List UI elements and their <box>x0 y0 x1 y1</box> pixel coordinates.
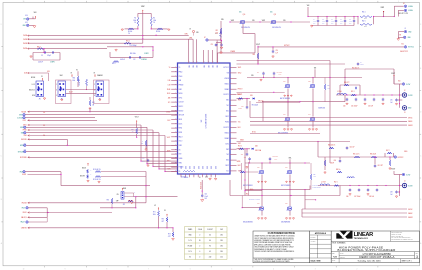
svg-text:R52 2: R52 2 <box>112 63 116 65</box>
svg-text:SUD50P06-25L: SUD50P06-25L <box>241 27 250 29</box>
svg-text:8: 8 <box>106 1 107 3</box>
svg-text:1: 1 <box>398 1 399 3</box>
svg-text:CHN: CHN <box>184 34 187 36</box>
svg-text:BUT2: BUT2 <box>225 143 229 145</box>
svg-text:V5: V5 <box>94 72 96 74</box>
svg-text:PH1B: PH1B <box>167 89 171 91</box>
svg-text:MODE: MODE <box>22 111 27 113</box>
svg-text:V5: V5 <box>179 67 181 69</box>
svg-text:CLKOUT: CLKOUT <box>207 229 213 231</box>
svg-text:1uF: 1uF <box>390 194 392 196</box>
svg-text:CLKOUT: CLKOUT <box>17 117 23 119</box>
svg-text:Q10: Q10 <box>243 14 246 16</box>
svg-text:SW2: SW2 <box>226 149 229 151</box>
svg-text:E15: E15 <box>25 22 28 24</box>
svg-text:EXTVCC: EXTVCC <box>224 67 229 69</box>
svg-text:Q11: Q11 <box>274 14 277 16</box>
svg-text:C1B: C1B <box>241 106 244 108</box>
svg-text:1.4 V: 1.4 V <box>188 240 191 242</box>
svg-text:Q6B: Q6B <box>285 167 288 169</box>
svg-text:VLOW: VLOW <box>408 185 413 187</box>
svg-text:C12: C12 <box>133 59 136 61</box>
svg-text:VIN: VIN <box>252 20 254 22</box>
svg-text:2512: 2512 <box>364 26 367 28</box>
svg-text:R47 2: R47 2 <box>386 150 390 152</box>
svg-text:SHSW1: SHSW1 <box>408 125 413 127</box>
svg-text:R2 20.0K 1%: R2 20.0K 1% <box>93 179 101 181</box>
svg-text:R2B: R2B <box>313 174 316 176</box>
svg-text:VIN: VIN <box>227 73 229 75</box>
svg-text:36V UP TO 75V: 36V UP TO 75V <box>399 13 409 15</box>
svg-text:VIN: VIN <box>221 19 224 21</box>
svg-text:TG2: TG2 <box>226 154 229 156</box>
svg-text:V5: V5 <box>154 205 156 207</box>
svg-text:C50: C50 <box>205 194 208 196</box>
svg-text:C2B: C2B <box>241 154 244 156</box>
svg-text:SGND: SGND <box>179 158 183 160</box>
svg-text:J10: J10 <box>43 112 45 114</box>
svg-text:C67 150uF: C67 150uF <box>354 196 361 198</box>
svg-text:R52 1: R52 1 <box>334 182 338 184</box>
svg-text:100V: 100V <box>279 74 282 76</box>
svg-text:C16: C16 <box>257 72 260 74</box>
svg-text:PH2B: PH2B <box>23 48 27 50</box>
svg-text:TG1: TG1 <box>226 105 229 107</box>
svg-text:CLK2: CLK2 <box>23 120 27 122</box>
svg-text:R61 2: R61 2 <box>126 41 130 43</box>
svg-text:VINP: VINP <box>262 20 265 22</box>
svg-text:ILIM: ILIM <box>179 80 182 82</box>
svg-text:30V: 30V <box>340 23 342 25</box>
svg-text:R1 20.0K 1%: R1 20.0K 1% <box>93 169 101 171</box>
svg-text:FROUT: FROUT <box>238 89 243 91</box>
svg-text:C13: C13 <box>211 44 214 46</box>
svg-text:SHTG1: SHTG1 <box>408 117 413 119</box>
svg-text:C44 1uF: C44 1uF <box>350 147 355 149</box>
svg-text:C20: C20 <box>276 50 279 52</box>
svg-text:EXTVCC: EXTVCC <box>398 157 404 159</box>
svg-text:FREQ: FREQ <box>179 71 183 73</box>
svg-text:ITHLB: ITHLB <box>179 76 183 78</box>
svg-text:R50 100k: R50 100k <box>130 53 136 55</box>
svg-text:Tuesday, June 08, 2016: Tuesday, June 08, 2016 <box>357 261 381 263</box>
svg-text:OPT: OPT <box>161 221 164 223</box>
svg-text:IMON1B: IMON1B <box>21 139 26 141</box>
svg-text:VHIGH: VHIGH <box>408 6 412 8</box>
svg-text:SHBG1: SHBG1 <box>408 121 413 123</box>
svg-text:VOUT: VOUT <box>167 137 171 139</box>
svg-text:30V: 30V <box>322 23 324 25</box>
svg-text:R70: R70 <box>107 200 110 202</box>
svg-text:SYNC: SYNC <box>179 97 183 99</box>
svg-text:CH1B: CH1B <box>23 35 27 37</box>
svg-text:VIN: VIN <box>283 20 285 22</box>
svg-text:BG2: BG2 <box>238 165 241 167</box>
svg-text:SW1: SW1 <box>238 100 241 102</box>
svg-text:R46 40.2K: R46 40.2K <box>370 154 376 156</box>
svg-text:VLO: VLO <box>226 171 229 173</box>
svg-text:TG1: TG1 <box>238 121 241 123</box>
svg-text:R62 1: R62 1 <box>362 20 366 22</box>
svg-text:C68 1uF: C68 1uF <box>369 196 374 198</box>
svg-text:BG2x: BG2x <box>250 189 254 191</box>
svg-text:DRV2: DRV2 <box>225 165 229 167</box>
svg-text:R4: R4 <box>153 18 155 20</box>
svg-text:100V: 100V <box>274 159 277 161</box>
svg-text:90: 90 <box>209 246 211 248</box>
svg-text:ILIM1: ILIM1 <box>23 125 27 127</box>
svg-text:T40SH1306: T40SH1306 <box>318 108 325 110</box>
svg-text:MODE: MODE <box>179 93 183 95</box>
svg-text:BG1: BG1 <box>238 127 241 129</box>
svg-text:10uF: 10uF <box>322 21 325 23</box>
svg-text:COMP2: COMP2 <box>50 62 55 64</box>
svg-text:R3B: R3B <box>77 80 80 82</box>
svg-text:PHSMD: PHSMD <box>179 84 184 86</box>
svg-text:SHTG2: SHTG2 <box>408 209 413 211</box>
svg-text:CUSTOMER NOTICE: CUSTOMER NOTICE <box>268 231 295 235</box>
svg-text:C10: C10 <box>142 158 145 160</box>
svg-text:E8: E8 <box>400 34 402 36</box>
svg-text:VINP: VINP <box>231 20 234 22</box>
svg-text:10uF: 10uF <box>340 21 343 23</box>
svg-text:30V: 30V <box>349 23 351 25</box>
svg-text:L1 7uH: L1 7uH <box>337 91 341 93</box>
svg-text:APPROVALS: APPROVALS <box>315 232 327 235</box>
svg-text:VIN: VIN <box>307 5 310 7</box>
svg-text:SETCUR: SETCUR <box>179 115 184 117</box>
svg-text:BOOST: BOOST <box>80 176 85 178</box>
svg-text:IMON: IMON <box>20 145 24 147</box>
svg-text:GND: GND <box>214 166 216 169</box>
svg-text:DRV1: DRV1 <box>225 116 229 118</box>
svg-text:100k: 100k <box>72 80 75 82</box>
svg-text:CRSETB: CRSETB <box>21 228 27 230</box>
svg-text:FCM: FCM <box>32 95 35 97</box>
svg-text:1uF: 1uF <box>276 52 278 54</box>
svg-text:BSC040N08NS5: BSC040N08NS5 <box>243 222 253 224</box>
svg-text:BOOST2: BOOST2 <box>224 127 230 129</box>
svg-text:24B: 24B <box>196 32 198 34</box>
svg-text:PGND: PGND <box>225 122 229 124</box>
svg-text:THERMISTOR: THERMISTOR <box>312 187 320 189</box>
svg-text:C66: C66 <box>346 196 349 198</box>
svg-text:100k: 100k <box>215 32 218 34</box>
svg-text:4.99K: 4.99K <box>313 176 316 178</box>
svg-text:G05: G05 <box>270 12 273 14</box>
svg-text:SHV5: SHV5 <box>404 151 408 153</box>
svg-text:GND: GND <box>180 166 182 169</box>
svg-text:C10 1500pF: C10 1500pF <box>129 45 136 47</box>
svg-text:V5: V5 <box>76 70 78 72</box>
svg-text:VDD: VDD <box>207 65 209 68</box>
svg-text:GND: GND <box>210 166 212 169</box>
svg-text:VFBON: VFBON <box>224 78 229 80</box>
svg-text:100k: 100k <box>133 20 136 22</box>
svg-text:BSC117N08NS5: BSC117N08NS5 <box>243 185 253 187</box>
svg-text:BUCK/7-5: BUCK/7-5 <box>29 90 35 92</box>
svg-text:2.6 V: 2.6 V <box>188 251 191 253</box>
svg-text:R28 2: R28 2 <box>239 169 243 171</box>
svg-text:SIZE: SIZE <box>332 253 335 255</box>
svg-text:OFF: OFF <box>116 200 119 202</box>
svg-text:Q1B: Q1B <box>283 81 286 83</box>
svg-text:V5: V5 <box>71 72 73 74</box>
svg-text:U2000: U2000 <box>184 177 188 179</box>
svg-text:2512: 2512 <box>364 18 367 20</box>
svg-text:VHIGH: VHIGH <box>408 10 412 12</box>
svg-text:R9 10k: R9 10k <box>128 31 132 33</box>
svg-text:Q4B: Q4B <box>308 114 311 116</box>
svg-text:E1: E1 <box>403 3 405 5</box>
svg-text:GND: GND <box>184 166 186 169</box>
svg-text:R51 1: R51 1 <box>351 91 355 93</box>
svg-text:VLOW: VLOW <box>408 95 413 97</box>
svg-text:VDD: VDD <box>192 65 194 68</box>
svg-text:V5: V5 <box>189 29 191 31</box>
svg-text:DRVCC: DRVCC <box>179 106 184 108</box>
svg-text:R5: R5 <box>134 18 136 20</box>
svg-text:RUN2: RUN2 <box>23 212 27 214</box>
svg-text:OPT: OPT <box>142 160 145 162</box>
svg-text:B 70k: B 70k <box>252 131 256 133</box>
svg-text:3: 3 <box>416 255 418 259</box>
svg-text:SS: SS <box>179 149 181 151</box>
svg-text:IL1B: IL1B <box>168 80 171 82</box>
svg-text:PCB NO.: PCB NO. <box>340 257 346 259</box>
svg-text:SETCURB: SETCURB <box>20 157 27 159</box>
svg-text:SHSW2: SHSW2 <box>408 217 413 219</box>
svg-text:GND: GND <box>197 166 199 169</box>
svg-text:BSC117N08NS5: BSC117N08NS5 <box>281 185 291 187</box>
svg-text:VOUT: VOUT <box>256 44 260 46</box>
svg-text:SHBG2: SHBG2 <box>408 213 413 215</box>
svg-text:IMON: IMON <box>179 119 182 121</box>
svg-text:RUN1B: RUN1B <box>22 203 27 205</box>
svg-text:GND: GND <box>188 235 191 237</box>
svg-text:RUN2: RUN2 <box>22 174 26 176</box>
svg-text:R48 1u: R48 1u <box>336 169 340 171</box>
svg-text:V5: V5 <box>189 257 191 259</box>
svg-text:0.047uF: 0.047uF <box>120 59 125 61</box>
svg-text:0.82uF: 0.82uF <box>330 162 334 164</box>
svg-text:1uF: 1uF <box>390 102 392 104</box>
svg-text:E14: E14 <box>25 15 28 17</box>
svg-text:180: 180 <box>220 235 223 237</box>
svg-text:R56 OPT: R56 OPT <box>344 82 350 84</box>
svg-text:10: 10 <box>23 1 25 3</box>
svg-text:GND: GND <box>408 31 411 33</box>
svg-text:180: 180 <box>220 246 223 248</box>
svg-text:TECHNOLOGY: TECHNOLOGY <box>354 238 369 240</box>
svg-text:SETCUR: SETCUR <box>18 151 24 153</box>
svg-text:VIN: VIN <box>23 19 26 21</box>
svg-text:E12: E12 <box>402 44 405 46</box>
svg-text:1M: 1M <box>92 104 94 106</box>
svg-text:Q8B: Q8B <box>285 203 288 205</box>
svg-text:R71: R71 <box>153 212 156 214</box>
svg-text:B: B <box>420 199 421 201</box>
svg-text:SEC2: SEC2 <box>238 73 242 75</box>
svg-text:IL1B: IL1B <box>47 71 50 73</box>
svg-text:COMP1: COMP1 <box>144 53 149 55</box>
svg-text:RUN: RUN <box>20 171 23 173</box>
svg-text:Fax: (408)434-0507 www.linear: Fax: (408)434-0507 www.linear.com <box>391 237 410 239</box>
svg-text:CLKOUT: CLKOUT <box>179 102 184 104</box>
svg-text:CH2: CH2 <box>220 229 223 231</box>
svg-text:30V: 30V <box>313 23 315 25</box>
svg-text:VDD: VDD <box>195 65 197 68</box>
svg-text:TG2: TG2 <box>238 149 241 151</box>
svg-text:ILIM3: ILIM3 <box>179 145 183 147</box>
svg-text:RUN1: RUN1 <box>179 128 183 130</box>
svg-text:BUCK: BUCK <box>179 123 183 125</box>
svg-text:R44 100 1%: R44 100 1% <box>328 145 336 147</box>
svg-text:VIOUT: VIOUT <box>391 169 395 171</box>
svg-text:F: F <box>1 24 2 26</box>
svg-text:Q3B: Q3B <box>283 114 286 116</box>
svg-text:GND: GND <box>188 166 190 169</box>
svg-text:100k: 100k <box>153 214 156 216</box>
svg-text:ITHB: ITHB <box>23 135 26 137</box>
svg-text:VINP: VINP <box>141 6 145 8</box>
svg-text:GND: GND <box>193 166 195 169</box>
svg-text:10uF: 10uF <box>331 21 334 23</box>
svg-text:470pF: 470pF <box>47 55 51 57</box>
svg-text:0.1uF: 0.1uF <box>205 196 209 198</box>
svg-text:EXTVCC: EXTVCC <box>284 45 290 47</box>
svg-text:Q2B: Q2B <box>308 81 311 83</box>
svg-text:60: 60 <box>209 235 211 237</box>
svg-text:VFB2: VFB2 <box>179 162 183 164</box>
svg-text:VINP: VINP <box>381 7 385 9</box>
svg-text:V5: V5 <box>41 76 43 78</box>
svg-text:B: B <box>1 199 2 201</box>
svg-text:10uF: 10uF <box>313 21 316 23</box>
svg-text:180: 180 <box>220 240 223 242</box>
svg-text:C8: C8 <box>41 55 43 57</box>
svg-text:PCB ENG: PCB ENG <box>310 237 315 239</box>
svg-text:5: 5 <box>231 1 232 3</box>
svg-text:R61 1: R61 1 <box>362 11 366 13</box>
svg-text:SLM1: SLM1 <box>167 93 171 95</box>
svg-text:VINL: VINL <box>289 157 292 159</box>
svg-text:Q5B: Q5B <box>257 167 260 169</box>
svg-text:ITH2: ITH2 <box>179 154 182 156</box>
svg-text:50V: 50V <box>205 198 207 200</box>
svg-text:RUN: RUN <box>22 208 25 210</box>
svg-text:E7: E7 <box>204 37 206 39</box>
svg-text:C65: C65 <box>390 100 393 102</box>
svg-text:Q7B: Q7B <box>257 203 260 205</box>
svg-text:SSB: SSB <box>21 132 24 134</box>
svg-text:VDD: VDD <box>202 65 204 68</box>
svg-text:SNSD2: SNSD2 <box>224 132 229 134</box>
svg-text:549k: 549k <box>153 20 156 22</box>
svg-text:VOUT1: VOUT1 <box>238 94 243 96</box>
svg-text:SHEET 1 OF 1: SHEET 1 OF 1 <box>402 260 412 262</box>
svg-text:0.047uF: 0.047uF <box>38 62 43 64</box>
svg-text:R40: R40 <box>253 54 256 56</box>
svg-text:SH EXTVCC: SH EXTVCC <box>400 51 408 53</box>
svg-text:V5: V5 <box>164 210 166 212</box>
svg-text:CH2B: CH2B <box>23 39 27 41</box>
svg-text:SW2B: SW2B <box>237 161 241 163</box>
svg-text:VDD: VDD <box>211 65 213 68</box>
svg-text:VIOUT: VIOUT <box>391 73 395 75</box>
svg-text:L2 7uH: L2 7uH <box>321 181 325 183</box>
svg-text:OVLO: OVLO <box>179 141 183 143</box>
svg-text:D2B: D2B <box>255 146 258 148</box>
svg-text:120: 120 <box>220 257 223 259</box>
svg-text:R41: R41 <box>92 102 95 104</box>
svg-text:VIN: VIN <box>251 75 253 77</box>
svg-text:BG2: BG2 <box>226 160 229 162</box>
svg-text:OPT: OPT <box>168 236 171 238</box>
svg-text:GND: GND <box>205 166 207 169</box>
svg-text:ILIM2: ILIM2 <box>20 127 24 129</box>
svg-text:RUN2: RUN2 <box>179 132 183 134</box>
svg-text:0.82uF: 0.82uF <box>360 64 364 66</box>
svg-text:ILIM2: ILIM2 <box>179 89 183 91</box>
svg-text:SNSD1: SNSD1 <box>224 83 229 85</box>
svg-text:SW2: SW2 <box>238 143 241 145</box>
svg-text:0.22uF: 0.22uF <box>238 108 242 110</box>
svg-text:GND: GND <box>201 166 203 169</box>
svg-text:ON: ON <box>116 194 118 196</box>
svg-text:PH1B: PH1B <box>23 43 27 45</box>
svg-text:ILOW: ILOW <box>406 174 410 176</box>
svg-text:ILOW: ILOW <box>406 84 410 86</box>
svg-text:4.99K: 4.99K <box>327 87 330 89</box>
svg-text:R8 10k: R8 10k <box>156 31 160 33</box>
svg-text:45: 45 <box>209 251 211 253</box>
svg-text:VOUT: VOUT <box>135 117 139 119</box>
svg-text:J12: J12 <box>43 125 45 127</box>
svg-text:VIN: VIN <box>314 68 316 70</box>
svg-text:240: 240 <box>209 257 212 259</box>
svg-text:10uF: 10uF <box>349 21 352 23</box>
svg-text:E10: E10 <box>398 81 401 83</box>
svg-text:V5: V5 <box>179 171 181 173</box>
svg-text:CHN: CHN <box>189 37 192 39</box>
svg-text:E: E <box>1 68 2 70</box>
svg-text:30V: 30V <box>331 23 333 25</box>
svg-text:BUCK: BUCK <box>82 167 86 169</box>
svg-text:JP1: JP1 <box>39 98 42 100</box>
svg-text:C40: C40 <box>334 160 337 162</box>
svg-text:4: 4 <box>273 1 274 3</box>
svg-text:C69: C69 <box>390 192 393 194</box>
svg-text:90: 90 <box>199 240 201 242</box>
svg-text:180: 180 <box>220 251 223 253</box>
svg-text:R12: R12 <box>216 30 219 32</box>
svg-text:C17 2.2uF: C17 2.2uF <box>277 72 283 74</box>
svg-text:E: E <box>420 68 421 70</box>
svg-text:R27 2: R27 2 <box>238 146 242 148</box>
svg-text:JP5: JP5 <box>123 204 126 206</box>
svg-text:D1B: D1B <box>250 95 253 97</box>
svg-text:1M: 1M <box>78 82 80 84</box>
svg-text:F-1.3: F-1.3 <box>32 84 35 86</box>
svg-text:F: F <box>420 24 421 26</box>
svg-text:C61 150uF: C61 150uF <box>351 106 358 108</box>
svg-text:R45 1u 1%: R45 1u 1% <box>353 154 360 156</box>
svg-text:BSC117N08NS5: BSC117N08NS5 <box>280 98 290 100</box>
svg-text:RUN: RUN <box>123 188 126 190</box>
svg-text:MODE: MODE <box>31 77 35 79</box>
svg-text:DB: DB <box>141 143 143 145</box>
